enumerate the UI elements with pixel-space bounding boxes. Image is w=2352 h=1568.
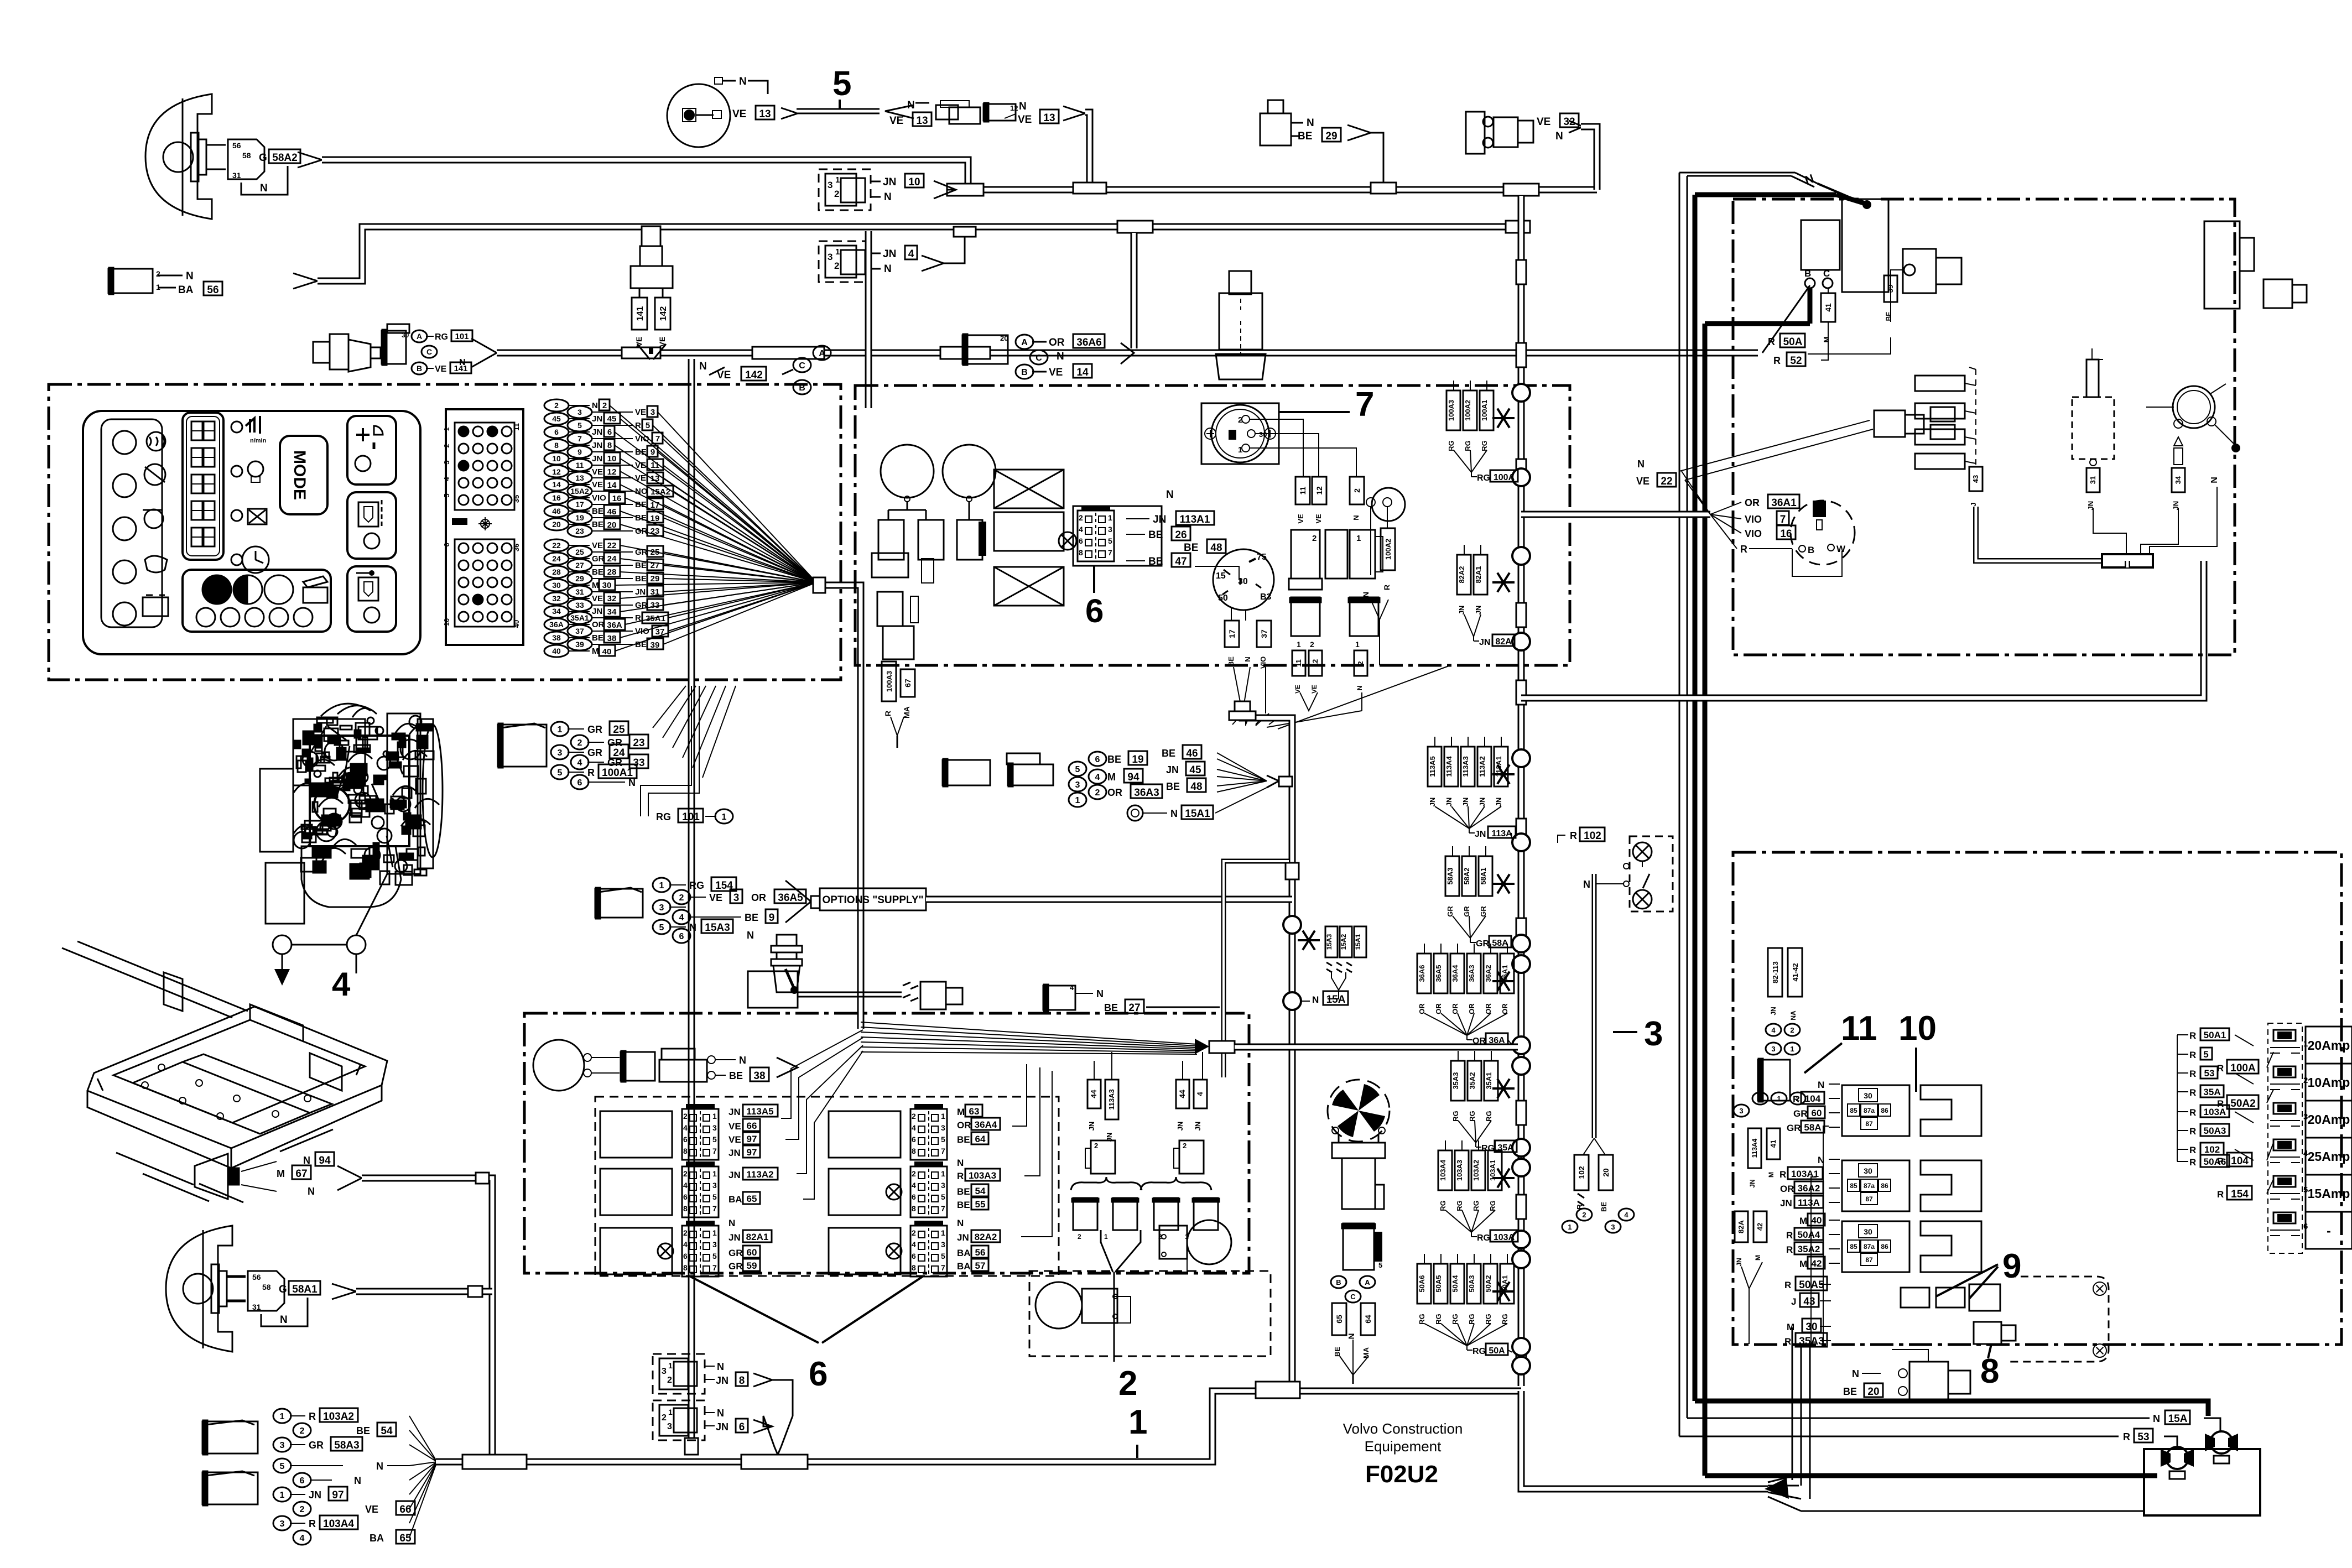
svg-text:OR: OR — [592, 620, 605, 629]
svg-text:VE: VE — [365, 1504, 378, 1515]
connectors black pair — [1291, 597, 1320, 636]
svg-text:46: 46 — [1186, 748, 1198, 759]
numeral 3 — [1613, 1031, 1637, 1033]
svg-text:65: 65 — [747, 1194, 757, 1204]
svg-text:8: 8 — [739, 1375, 745, 1387]
svg-text:43: 43 — [1971, 475, 1980, 483]
svg-text:BE: BE — [1162, 748, 1175, 759]
svg-text:RG: RG — [1485, 1111, 1493, 1122]
svg-text:29: 29 — [651, 574, 660, 584]
two pin connectors — [1073, 1198, 1097, 1230]
svg-text:BA: BA — [729, 1194, 742, 1205]
svg-text:10: 10 — [607, 454, 617, 463]
svg-text:20Amp: 20Amp — [2308, 1038, 2350, 1053]
svg-text:36A5: 36A5 — [778, 892, 803, 904]
labels GR25 GR23 R100A1 — [551, 722, 569, 736]
svg-text:BA: BA — [957, 1261, 971, 1272]
engine assembly — [260, 708, 443, 924]
led cluster panel — [183, 570, 331, 632]
svg-text:1: 1 — [558, 725, 563, 734]
svg-text:15A2: 15A2 — [1340, 934, 1347, 950]
wire BE29 to bus1 — [1347, 125, 1371, 140]
svg-text:JN: JN — [1428, 798, 1437, 807]
svg-text:N: N — [699, 361, 707, 372]
svg-text:JN: JN — [1087, 1122, 1096, 1131]
svg-text:37: 37 — [575, 627, 584, 635]
svg-text:101: 101 — [455, 332, 469, 341]
connector black — [382, 331, 406, 364]
svg-text:30: 30 — [1864, 1166, 1872, 1175]
connector item 8 — [1974, 1322, 2001, 1344]
bundle apex collar — [1195, 1039, 1209, 1054]
svg-text:100A2: 100A2 — [1464, 400, 1472, 421]
svg-text:R: R — [1786, 1244, 1793, 1255]
svg-text:VIO: VIO — [635, 434, 649, 444]
svg-text:38: 38 — [552, 633, 561, 642]
numeral 11 pointer — [1804, 1043, 1842, 1073]
svg-text:OR: OR — [957, 1120, 971, 1131]
svg-text:JN: JN — [1461, 798, 1470, 807]
svg-text:R: R — [2217, 1098, 2224, 1109]
svg-text:BA: BA — [370, 1533, 384, 1544]
svg-text:40: 40 — [602, 647, 612, 657]
svg-text:1: 1 — [1128, 1403, 1147, 1441]
svg-text:2: 2 — [667, 1376, 672, 1385]
svg-text:JN: JN — [716, 1421, 729, 1432]
svg-text:2: 2 — [1238, 415, 1242, 425]
svg-text:B: B — [417, 364, 422, 373]
svg-text:4: 4 — [683, 1240, 688, 1249]
svg-text:16: 16 — [612, 494, 622, 503]
svg-text:B: B — [1804, 268, 1811, 279]
svg-text:VE: VE — [592, 594, 603, 603]
svg-text:2: 2 — [683, 1228, 688, 1237]
svg-text:RG: RG — [1477, 1233, 1490, 1243]
svg-text:4: 4 — [300, 1534, 305, 1543]
svg-text:VE: VE — [729, 1134, 741, 1145]
svg-text:1: 1 — [722, 812, 727, 822]
svg-text:N: N — [729, 1218, 735, 1228]
button group 1 — [347, 416, 396, 485]
svg-text:113A3: 113A3 — [1107, 1089, 1116, 1110]
ignition switch dial — [1213, 549, 1274, 610]
svg-text:45: 45 — [552, 414, 561, 423]
svg-text:5: 5 — [712, 1252, 717, 1260]
svg-text:1: 1 — [712, 1169, 717, 1178]
solenoid tall component — [2204, 221, 2240, 309]
svg-text:53: 53 — [2204, 1068, 2215, 1079]
svg-text:N: N — [1818, 1080, 1824, 1090]
svg-text:44: 44 — [1178, 1090, 1187, 1098]
svg-text:7: 7 — [712, 1204, 717, 1213]
labels BE17 N VIO37 below ignition — [1231, 607, 1232, 621]
svg-text:2: 2 — [1183, 1142, 1187, 1150]
svg-text:3: 3 — [1075, 780, 1080, 790]
svg-text:BE: BE — [1227, 657, 1235, 666]
relay group 113A5 — [600, 1111, 672, 1158]
svg-text:7: 7 — [655, 434, 660, 444]
svg-text:R: R — [2217, 1189, 2224, 1200]
rear harness dashed enclosure bottom right — [1733, 852, 2341, 1345]
svg-text:R: R — [1779, 1169, 1786, 1180]
headlamp front work lamp — [145, 94, 212, 219]
amp rating table — [2306, 1027, 2352, 1064]
svg-text:32: 32 — [552, 594, 561, 603]
svg-text:R: R — [1740, 544, 1747, 555]
svg-text:41-42: 41-42 — [1791, 963, 1799, 981]
battery clamp left — [2166, 1447, 2188, 1469]
svg-text:JN: JN — [883, 248, 896, 260]
svg-text:100A: 100A — [2230, 1062, 2256, 1074]
connector inline small — [903, 982, 918, 1001]
svg-text:45: 45 — [607, 414, 617, 424]
horn labels M67 N94 — [241, 1161, 277, 1171]
accessory socket item 7 — [1201, 403, 1279, 464]
braces — [1071, 1177, 1142, 1190]
instrument cluster outline — [83, 411, 420, 654]
svg-text:M: M — [1799, 1259, 1807, 1269]
svg-text:11: 11 — [576, 461, 584, 470]
svg-text:BE: BE — [592, 633, 603, 643]
gauge fuel — [881, 445, 934, 498]
svg-text:8: 8 — [1980, 1352, 1999, 1390]
svg-text:28: 28 — [607, 567, 617, 577]
svg-text:N: N — [1170, 808, 1178, 819]
svg-text:104: 104 — [1805, 1093, 1821, 1104]
temperature sender — [313, 342, 330, 363]
svg-text:GR: GR — [1446, 906, 1454, 917]
pin grid lower — [455, 539, 514, 627]
wire bus2 tail — [293, 273, 318, 289]
svg-text:7: 7 — [941, 1263, 945, 1272]
svg-text:6: 6 — [809, 1355, 828, 1393]
svg-text:25: 25 — [651, 548, 660, 557]
wire ignition R loop — [1792, 549, 1842, 576]
svg-text:BE: BE — [745, 912, 758, 923]
svg-text:35A2: 35A2 — [1468, 1072, 1476, 1089]
wire BE27 to bus — [1146, 1007, 1220, 1008]
wire JN31 to T — [2093, 508, 2126, 554]
svg-text:JN: JN — [729, 1232, 741, 1243]
svg-text:36A4: 36A4 — [975, 1119, 997, 1130]
svg-text:2: 2 — [554, 401, 559, 410]
svg-text:50A4: 50A4 — [1451, 1275, 1459, 1293]
svg-text:VE: VE — [1537, 116, 1550, 128]
svg-text:RG: RG — [1447, 440, 1455, 451]
svg-text:113A: 113A — [1491, 829, 1512, 838]
indicator small circles — [231, 421, 242, 433]
junction collar bus3 — [940, 347, 990, 359]
svg-text:BE: BE — [592, 567, 603, 577]
svg-text:N: N — [1243, 657, 1252, 661]
svg-text:BE: BE — [1166, 781, 1180, 792]
svg-text:n/min: n/min — [250, 437, 267, 444]
svg-text:RG: RG — [1480, 440, 1489, 451]
fan motor body — [1338, 1134, 1340, 1143]
svg-text:VIO: VIO — [592, 493, 606, 503]
svg-text:20: 20 — [607, 520, 617, 530]
svg-text:8: 8 — [683, 1204, 688, 1213]
svg-text:BE: BE — [592, 520, 603, 529]
svg-text:3: 3 — [662, 1367, 667, 1376]
svg-text:50A1: 50A1 — [2204, 1030, 2226, 1040]
connector solenoid — [2263, 279, 2292, 308]
svg-text:2: 2 — [662, 1413, 667, 1423]
svg-text:2: 2 — [1582, 1211, 1586, 1219]
svg-text:5: 5 — [443, 493, 451, 497]
air horn circle — [533, 1040, 584, 1091]
svg-text:87a: 87a — [1864, 1243, 1875, 1251]
svg-text:JN: JN — [1176, 1122, 1184, 1131]
svg-text:2: 2 — [834, 189, 839, 199]
connector BE27 — [1043, 986, 1075, 1010]
svg-text:C: C — [426, 347, 432, 356]
labels bottom left fan — [273, 1409, 291, 1423]
svg-text:9: 9 — [2002, 1247, 2021, 1285]
pin grid upper — [455, 423, 514, 510]
svg-text:N: N — [1637, 459, 1645, 470]
svg-text:25Amp: 25Amp — [2308, 1149, 2350, 1164]
svg-text:103A4: 103A4 — [323, 1518, 354, 1530]
svg-text:OR: OR — [1468, 1003, 1476, 1014]
svg-text:N: N — [1312, 994, 1319, 1005]
wire VE22 diagonals into box — [1679, 420, 1870, 471]
svg-text:OR: OR — [1049, 337, 1065, 348]
relay JN8 — [653, 1354, 705, 1394]
svg-text:30: 30 — [1864, 1091, 1872, 1100]
svg-text:23: 23 — [651, 527, 660, 536]
svg-text:17: 17 — [575, 500, 584, 509]
svg-text:39: 39 — [651, 640, 660, 650]
svg-text:36A3: 36A3 — [1468, 965, 1476, 982]
svg-text:VE: VE — [635, 408, 646, 417]
svg-text:JN: JN — [883, 176, 896, 188]
svg-text:4: 4 — [912, 1240, 916, 1249]
svg-text:2: 2 — [1796, 1095, 1799, 1103]
svg-text:JN: JN — [592, 414, 602, 424]
svg-text:40: 40 — [1812, 1215, 1822, 1226]
svg-text:1: 1 — [668, 1361, 673, 1370]
svg-text:2: 2 — [1310, 640, 1314, 649]
svg-text:JN: JN — [729, 1148, 741, 1158]
svg-text:50A: 50A — [1783, 336, 1803, 348]
svg-text:8: 8 — [554, 441, 559, 450]
svg-text:66: 66 — [399, 1504, 411, 1515]
labels 141 142 vertical — [632, 298, 647, 330]
svg-text:3: 3 — [712, 1240, 717, 1249]
svg-text:11: 11 — [512, 423, 521, 431]
svg-text:15: 15 — [1216, 571, 1226, 581]
svg-text:R: R — [957, 1171, 964, 1181]
svg-text:JN: JN — [716, 1375, 729, 1386]
svg-text:JN: JN — [592, 441, 602, 450]
buzzer box middle — [994, 512, 1064, 551]
svg-text:6: 6 — [683, 1135, 688, 1144]
numeral 2 pointer — [1113, 1272, 1115, 1362]
svg-text:N: N — [1347, 1333, 1356, 1340]
svg-text:R: R — [1768, 336, 1775, 347]
vertical bundle from box to fan — [1792, 1327, 1793, 1480]
svg-text:M: M — [1107, 772, 1116, 783]
wire RG101 step — [641, 686, 691, 816]
svg-text:BE: BE — [1104, 1002, 1118, 1013]
svg-text:50A5: 50A5 — [1434, 1275, 1443, 1292]
svg-text:4: 4 — [912, 1181, 916, 1190]
svg-text:N: N — [717, 1408, 724, 1419]
relay group 82A1 — [600, 1228, 672, 1274]
svg-text:1: 1 — [1108, 513, 1112, 522]
svg-text:86: 86 — [1881, 1107, 1888, 1114]
svg-text:G: G — [259, 152, 267, 164]
icon bulb — [248, 461, 263, 477]
svg-text:10: 10 — [1898, 1009, 1937, 1048]
svg-text:10: 10 — [908, 176, 920, 188]
svg-text:87: 87 — [1865, 1195, 1873, 1203]
svg-text:Volvo Construction: Volvo Construction — [1343, 1420, 1463, 1437]
svg-text:101: 101 — [682, 811, 700, 823]
wires left column merge — [1741, 1262, 1762, 1289]
svg-text:JN: JN — [957, 1232, 969, 1243]
junction T bus2-spine — [1506, 221, 1530, 233]
options supply box — [785, 881, 811, 923]
ignition switch dashed circle — [1791, 501, 1855, 565]
svg-text:R: R — [1382, 585, 1391, 590]
svg-text:5: 5 — [941, 1252, 945, 1260]
dashed sub box — [1029, 1271, 1271, 1356]
svg-text:N: N — [592, 401, 598, 410]
svg-text:5: 5 — [941, 1192, 945, 1201]
svg-text:2: 2 — [1094, 1142, 1098, 1150]
svg-text:R: R — [2189, 1145, 2196, 1155]
svg-text:R: R — [2189, 1050, 2196, 1060]
svg-text:BE: BE — [1600, 1202, 1608, 1212]
svg-text:B: B — [1021, 368, 1028, 377]
svg-text:65: 65 — [1335, 1315, 1344, 1324]
svg-text:1: 1 — [1777, 1095, 1781, 1103]
wire busA from headlamp — [298, 152, 322, 168]
wire glow plugs to T — [1976, 507, 2105, 561]
svg-text:24: 24 — [552, 554, 561, 563]
svg-text:36A4: 36A4 — [1451, 965, 1459, 982]
relay group 103A3 — [829, 1169, 901, 1215]
svg-text:JN: JN — [1166, 764, 1179, 775]
svg-text:34: 34 — [552, 607, 561, 616]
svg-text:41: 41 — [1769, 1140, 1777, 1148]
svg-text:RG: RG — [1489, 1200, 1497, 1211]
svg-text:103A1: 103A1 — [1791, 1169, 1819, 1179]
svg-text:50A2: 50A2 — [2230, 1098, 2255, 1109]
starter motor — [1842, 199, 1888, 292]
svg-text:BE: BE — [1843, 1386, 1857, 1397]
engine bay dashed enclosure top right — [1733, 199, 2235, 655]
connector item 11 — [1758, 1060, 1790, 1101]
engine mount pointer circles — [273, 935, 292, 954]
svg-text:A: A — [1021, 338, 1028, 347]
svg-text:C: C — [1350, 1293, 1356, 1301]
svg-text:7: 7 — [941, 1204, 945, 1213]
svg-text:BE: BE — [635, 640, 647, 649]
svg-text:35A1: 35A1 — [1485, 1072, 1493, 1089]
svg-text:RG: RG — [1477, 473, 1490, 483]
svg-text:4: 4 — [683, 1181, 688, 1190]
connector bottom left lower — [202, 1472, 258, 1504]
svg-text:N: N — [884, 191, 892, 203]
relay JN6 — [653, 1400, 705, 1440]
svg-text:1: 1 — [835, 175, 840, 185]
svg-text:MA: MA — [902, 706, 911, 718]
svg-text:1: 1 — [712, 1112, 717, 1121]
svg-text:12: 12 — [1311, 659, 1319, 667]
pressure switch VE32 — [1466, 112, 1485, 154]
collar horn wire — [476, 1173, 489, 1184]
centre dashed enclosure cab — [855, 386, 1570, 665]
svg-text:R: R — [2189, 1069, 2196, 1079]
svg-text:33: 33 — [651, 601, 660, 610]
wires rising to panel — [653, 686, 686, 728]
svg-text:11: 11 — [1298, 486, 1307, 494]
svg-text:64: 64 — [975, 1134, 986, 1144]
svg-text:19: 19 — [651, 514, 660, 523]
svg-text:GR: GR — [309, 1440, 324, 1451]
svg-text:BE: BE — [957, 1186, 970, 1197]
svg-text:13: 13 — [651, 474, 660, 483]
svg-text:5: 5 — [659, 923, 664, 933]
labels JN82-113 NA41-42 — [1768, 948, 1782, 997]
svg-text:JN: JN — [1735, 1258, 1743, 1266]
svg-text:6: 6 — [1095, 755, 1100, 764]
svg-text:VE: VE — [635, 473, 646, 483]
svg-text:8: 8 — [912, 1147, 916, 1155]
svg-text:22: 22 — [607, 541, 617, 550]
svg-text:BE: BE — [729, 1070, 743, 1081]
svg-text:1: 1 — [1297, 640, 1301, 649]
svg-text:85: 85 — [1850, 1107, 1857, 1114]
svg-text:42: 42 — [1756, 1223, 1764, 1231]
wires BE19 fan to bus — [1217, 753, 1267, 781]
svg-text:15A: 15A — [1326, 994, 1346, 1006]
svg-text:RG: RG — [1484, 1314, 1492, 1325]
svg-text:2: 2 — [1356, 661, 1365, 665]
svg-text:N: N — [1583, 879, 1590, 890]
svg-text:34: 34 — [2174, 476, 2182, 484]
svg-text:4: 4 — [908, 248, 914, 260]
connector BE29 — [1260, 113, 1291, 145]
svg-text:VE: VE — [709, 892, 722, 903]
svg-text:3: 3 — [280, 1441, 285, 1450]
svg-text:65: 65 — [399, 1533, 412, 1544]
svg-text:25: 25 — [575, 548, 584, 556]
svg-text:6: 6 — [683, 1252, 688, 1260]
svg-text:4: 4 — [1771, 1026, 1776, 1034]
icon rpm — [246, 418, 254, 433]
svg-text:20Amp: 20Amp — [2308, 1112, 2350, 1127]
svg-text:4: 4 — [1095, 773, 1100, 782]
svg-text:5: 5 — [577, 421, 582, 430]
svg-text:R: R — [2189, 1087, 2196, 1098]
wire stud to BE27 — [798, 992, 902, 993]
battery clamp right — [2210, 1431, 2233, 1454]
svg-text:RG: RG — [1451, 1314, 1459, 1325]
svg-text:102: 102 — [2204, 1144, 2220, 1155]
svg-text:30: 30 — [1259, 430, 1267, 439]
svg-text:82A1: 82A1 — [746, 1232, 769, 1242]
svg-text:JN: JN — [592, 607, 602, 616]
svg-text:113A4: 113A4 — [1445, 756, 1453, 777]
svg-text:6: 6 — [554, 428, 559, 436]
labels BE19 M94 OR36A3 block — [1069, 762, 1086, 776]
svg-text:56: 56 — [232, 141, 241, 150]
svg-text:N: N — [957, 1218, 964, 1228]
